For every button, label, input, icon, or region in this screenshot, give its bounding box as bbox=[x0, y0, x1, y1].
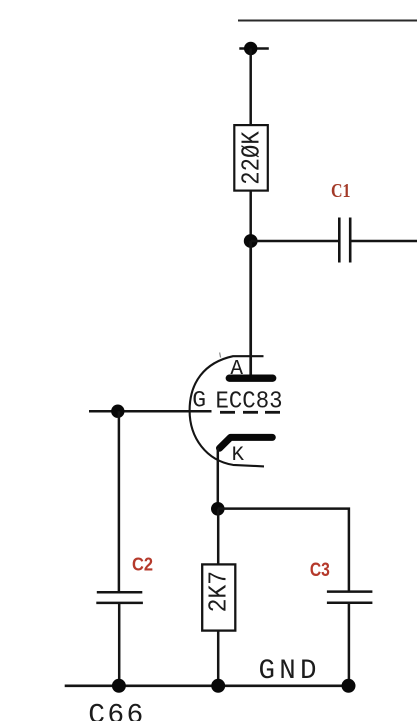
svg-text:C1: C1 bbox=[331, 181, 351, 202]
wire R2 to ground rail bbox=[217, 631, 220, 686]
wire node to C1 bbox=[251, 240, 340, 243]
node top junction bbox=[239, 42, 268, 55]
capacitor C3 bbox=[327, 592, 373, 603]
wire C1 to right edge bbox=[350, 240, 417, 243]
cathode electrode bbox=[220, 437, 273, 448]
wire top supply rail bbox=[238, 20, 417, 22]
capacitor C2 bbox=[96, 592, 143, 603]
svg-text:K: K bbox=[232, 444, 245, 467]
svg-text:A: A bbox=[230, 358, 243, 381]
grid dashed electrode bbox=[220, 411, 280, 414]
tube envelope ECC83 bbox=[190, 356, 264, 466]
resistor 2K7 bbox=[202, 564, 235, 630]
wire R1 to node bbox=[249, 191, 252, 241]
anode plate bbox=[229, 375, 272, 382]
svg-text:G: G bbox=[192, 388, 206, 414]
stray mark artifact bbox=[220, 353, 221, 358]
wire cathode node to R2 bbox=[217, 509, 220, 565]
node cathode junction bbox=[211, 502, 225, 516]
svg-text:C3: C3 bbox=[310, 560, 330, 581]
resistor 220K bbox=[234, 125, 267, 191]
wire cathode lead bbox=[217, 448, 220, 509]
node grid junction bbox=[111, 405, 124, 418]
node ground C3 bbox=[342, 679, 356, 693]
capacitor C1 bbox=[339, 218, 350, 263]
wire ground rail bbox=[65, 684, 349, 687]
svg-text:GND: GND bbox=[259, 656, 317, 687]
wire left rail grid node down to C2 bbox=[118, 411, 121, 592]
wire node to anode bbox=[249, 241, 252, 375]
wire junction to R1 bbox=[249, 49, 252, 126]
node ground C2 bbox=[112, 679, 126, 693]
wire cathode node to C3 corner bbox=[218, 509, 349, 592]
node ground R2 bbox=[211, 679, 225, 693]
svg-text:C2: C2 bbox=[132, 555, 153, 575]
svg-text:2K7: 2K7 bbox=[204, 571, 234, 613]
svg-text:22ØK: 22ØK bbox=[237, 131, 267, 185]
node plate junction bbox=[244, 234, 258, 248]
wire C3 to ground rail bbox=[348, 603, 351, 686]
svg-text:C66: C66 bbox=[88, 700, 143, 721]
wire C2 to ground rail bbox=[118, 603, 121, 686]
svg-text:ECC83: ECC83 bbox=[216, 388, 283, 415]
wire grid lead from left bbox=[89, 410, 212, 413]
